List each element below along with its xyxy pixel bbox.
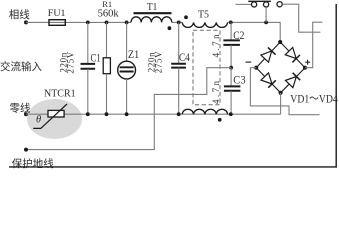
svg-text:C2: C2: [233, 28, 244, 42]
switch S contact bar: [248, 0, 271, 2]
svg-text:VD1～VD4: VD1～VD4: [290, 91, 338, 105]
label minus: [246, 61, 252, 63]
label plus: [305, 60, 310, 65]
resistor R1 upper lead: [106, 22, 108, 57]
capacitor C2 plates: [223, 40, 240, 45]
node C1 top junction: [86, 21, 90, 25]
node R1 top junction: [105, 21, 109, 25]
wire earth return from midpoint: [26, 68, 231, 150]
capacitor C1 upper lead: [87, 22, 89, 64]
node C4 top junction: [177, 21, 181, 25]
choke T5 bottom winding: [182, 109, 227, 114]
node C2 C3 midpoint: [229, 66, 233, 70]
resistor R1 body: [103, 58, 110, 74]
node L input terminal (phase): [24, 20, 28, 24]
bridge rectifier VD1-VD4 frame: [256, 42, 305, 93]
wire T1 to T5: [172, 21, 183, 23]
capacitor C3 lower lead: [230, 91, 232, 114]
wire terminal 3 output: [282, 4, 320, 32]
svg-text:C4: C4: [179, 50, 190, 64]
svg-text:零线: 零线: [10, 101, 31, 114]
varistor Z1 lower lead: [126, 79, 128, 114]
varistor Z1 plates: [120, 67, 134, 71]
capacitor C3 plates: [224, 86, 241, 90]
wire T5 to bridge top feed: [228, 22, 281, 42]
node bridge top: [278, 40, 282, 44]
fuse FU1: [49, 20, 65, 26]
svg-text:T1: T1: [147, 1, 157, 13]
svg-text:275V: 275V: [65, 51, 75, 73]
diode VD top-right: [285, 48, 300, 63]
capacitor C1 plates: [81, 64, 96, 69]
node Z1 bottom junction: [125, 112, 129, 116]
svg-text:FU1: FU1: [48, 9, 66, 19]
capacitor C3 upper lead: [230, 68, 232, 87]
svg-text:交流输入: 交流输入: [0, 60, 42, 73]
capacitor C1 lower lead: [87, 69, 89, 114]
svg-text:保护地线: 保护地线: [12, 157, 54, 170]
T5 bottom polarity dot: [218, 118, 222, 122]
T5 top polarity dot: [184, 15, 188, 19]
thermistor NTCR1 body: [48, 110, 64, 117]
node C4 bottom junction: [177, 112, 181, 116]
wire bridge bottom to neutral: [280, 93, 282, 114]
svg-text:T5: T5: [198, 9, 209, 21]
node switch junction: [264, 21, 268, 25]
svg-text:Z1: Z1: [128, 47, 139, 61]
svg-text:C1: C1: [91, 50, 101, 64]
capacitor C2 lower lead: [230, 45, 232, 68]
svg-text:275V: 275V: [154, 51, 164, 73]
wire neutral rail: [26, 113, 281, 115]
capacitor C4 lower lead: [178, 68, 180, 115]
node C3 bottom junction: [229, 112, 233, 116]
wire top rail phase: [26, 21, 131, 23]
node N input terminal (neutral): [24, 112, 28, 116]
varistor Z1 upper lead: [126, 22, 128, 61]
svg-text:C3: C3: [233, 72, 245, 86]
capacitor C2 upper lead: [230, 22, 232, 40]
svg-text:相线: 相线: [9, 8, 30, 21]
switch terminal circle 3: [277, 2, 282, 7]
capacitor C4 upper lead: [178, 22, 180, 63]
wire minus output: [250, 68, 319, 115]
node bridge left: [254, 66, 258, 70]
thermistor NTCR1 stroke: [33, 104, 67, 128]
capacitor C4 plates: [171, 64, 186, 68]
svg-text:4.7n: 4.7n: [211, 32, 221, 57]
switch S lead-in stub: [236, 3, 252, 5]
shield dashed box: [193, 30, 220, 105]
svg-text:560k: 560k: [98, 8, 120, 20]
T1 polarity dot: [168, 26, 172, 30]
node bridge right: [303, 66, 307, 70]
node bridge bottom: [279, 91, 283, 95]
wire switch to rail: [265, 7, 267, 22]
figure right border: [335, 4, 337, 168]
figure bottom border: [9, 166, 337, 168]
node C2 top junction: [229, 21, 233, 25]
node C1 bottom junction: [86, 112, 90, 116]
node R1 bottom junction: [105, 112, 109, 116]
diode VD bottom-left: [261, 73, 276, 88]
choke T5 top winding: [182, 22, 227, 27]
resistor R1 lower lead: [106, 74, 108, 115]
NTCR1 highlight ellipse: [27, 99, 82, 139]
inductor T1 core bar: [134, 12, 172, 14]
svg-text:θ: θ: [36, 114, 41, 125]
node earth terminal: [24, 148, 28, 152]
wire plus output: [305, 22, 323, 67]
svg-text:4.7n: 4.7n: [211, 79, 221, 104]
inductor T1 coil: [131, 17, 172, 23]
node Z1 top junction: [125, 21, 129, 25]
diode VD bottom-right: [285, 73, 300, 88]
varistor Z1 circle: [118, 61, 136, 79]
switch S contact circle 1: [252, 2, 257, 7]
switch S contact circle 2: [264, 2, 269, 7]
svg-text:NTCR1: NTCR1: [44, 89, 76, 100]
diode VD top-left: [261, 47, 276, 62]
